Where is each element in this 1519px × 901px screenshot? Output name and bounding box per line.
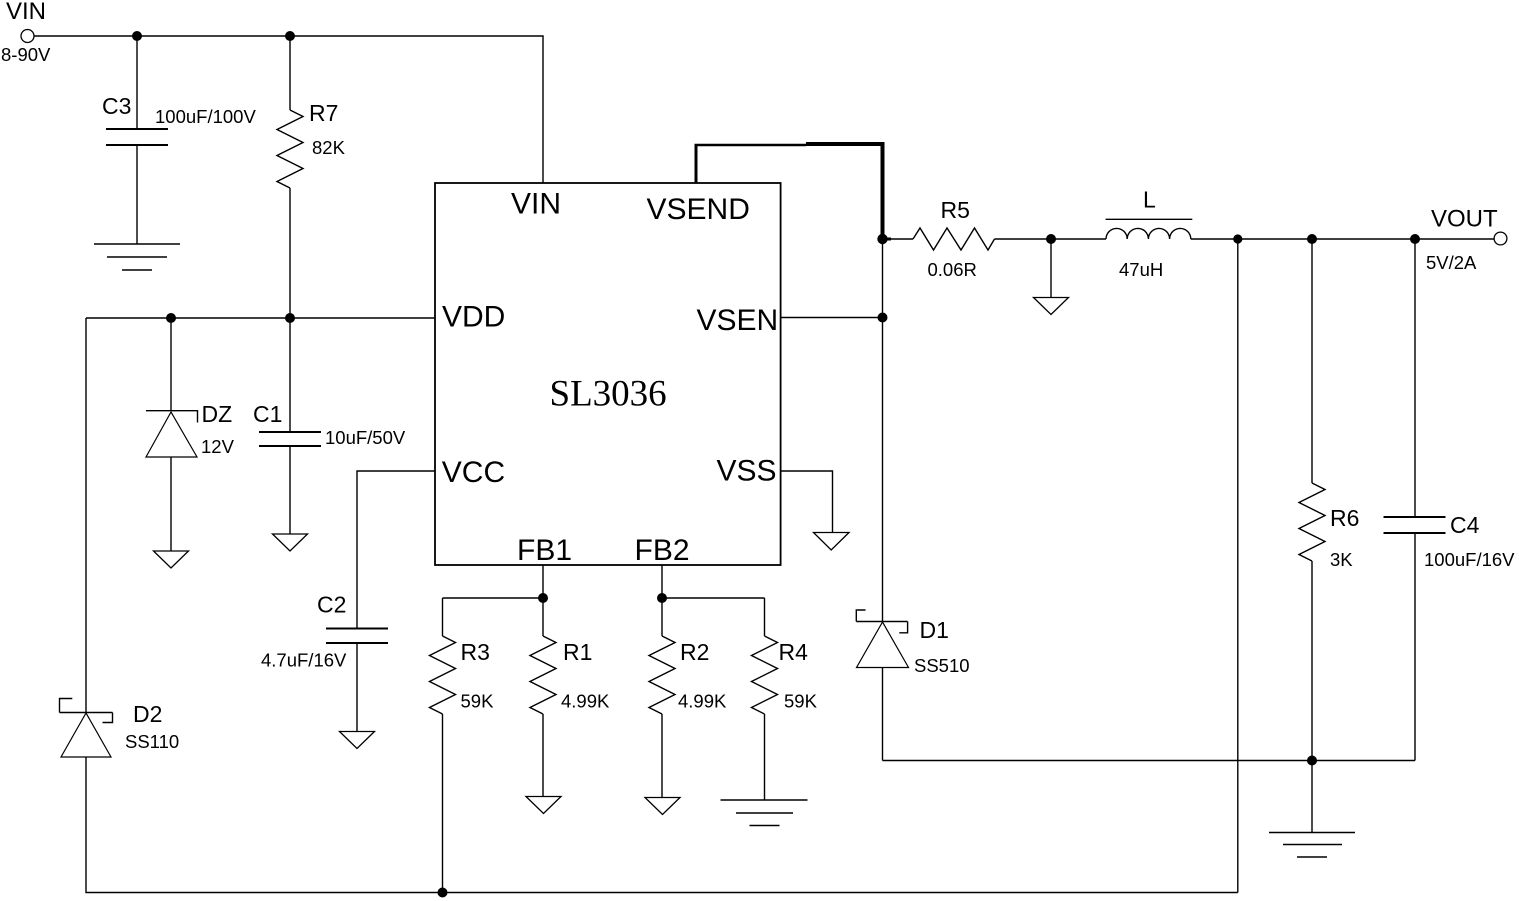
svg-text:59K: 59K [784,691,818,712]
resistor R4 59K [752,598,818,800]
wire D1 anode rail to C4 bottom [883,760,1416,762]
svg-text:4.99K: 4.99K [678,691,727,712]
svg-text:D1: D1 [920,617,949,643]
node J10 R3 bottom on bottom rail [438,888,448,898]
wire VCC pin to C2 [357,471,435,629]
svg-text:VIN: VIN [6,0,46,25]
wire VSEND thick route to switch node [695,142,885,239]
wire J5 down to ground arrow [1050,239,1052,298]
svg-text:3K: 3K [1330,549,1353,570]
inductor L 47uH [1106,187,1193,281]
node FB1 junction [538,593,548,603]
terminal VIN (port, 8-90V) [1,0,51,65]
resistor R5 0.06R [883,197,1052,280]
diode D2 SS110 (schottky) [60,699,180,758]
wire VSEN pin to switch node [781,317,883,319]
svg-text:C4: C4 [1450,512,1480,538]
resistor R7 82K [277,36,346,318]
svg-text:SS510: SS510 [914,655,970,676]
resistor R1 4.99K [530,598,610,797]
capacitor C4 100uF/16V [1384,239,1516,761]
resistor R2 4.99K [649,598,727,798]
capacitor C2 4.7uF/16V [261,592,388,732]
wire R6 bottom to earth ground [1311,761,1313,833]
ground (arrow) below R5 node [1034,298,1069,315]
ground (arrow) at VSS [814,533,850,551]
node J3 DZ tap on VDD rail [166,313,176,323]
wire switch node down to D1 [882,239,884,622]
svg-text:VSEN: VSEN [697,304,779,337]
svg-text:VSEND: VSEND [647,193,750,226]
wire top rail VIN to IC [34,36,543,183]
svg-text:R1: R1 [563,639,592,665]
diode DZ zener 12V [146,318,235,551]
node J9 R6 bottom junction [1307,756,1317,766]
diode D1 SS510 (schottky) [856,610,969,761]
svg-text:C3: C3 [102,93,131,119]
node J8 C4 top tap [1410,234,1420,244]
ground (earth) below R4 [721,800,808,826]
wire left branch down to D2 [85,318,87,713]
svg-text:R7: R7 [309,100,338,126]
wire VDD rail [86,317,435,319]
ground (arrow) below DZ [154,551,189,568]
svg-text:VOUT: VOUT [1431,206,1498,233]
ground (arrow) below C1 [273,534,308,551]
node VSEN junction [878,313,888,323]
wire D2 anode down to bottom rail [86,757,1238,893]
svg-text:SS110: SS110 [125,731,179,752]
wire FB2 junction to R4 [662,597,765,599]
svg-text:R5: R5 [941,197,970,223]
svg-text:VIN: VIN [511,188,561,221]
terminal VOUT (port, 5V/2A) [1426,206,1507,274]
svg-text:C1: C1 [253,401,282,427]
svg-text:59K: 59K [461,691,495,712]
svg-text:8-90V: 8-90V [1,44,51,65]
svg-text:4.99K: 4.99K [561,691,610,712]
node J6 output tap (bottom loop) [1233,234,1242,243]
wire output rail to VOUT [1191,238,1494,240]
node SW junction at R5 left [877,234,887,244]
svg-text:82K: 82K [312,137,346,158]
ground (earth) below C3 [94,244,180,270]
svg-text:SL3036: SL3036 [550,374,667,415]
wire FB1 junction to R3 [443,597,544,599]
svg-text:R2: R2 [680,639,709,665]
resistor R3 59K [430,598,495,893]
svg-text:100uF/16V: 100uF/16V [1424,549,1515,570]
svg-text:D2: D2 [133,701,162,727]
svg-text:FB1: FB1 [517,534,572,567]
svg-text:L: L [1143,187,1156,213]
svg-text:DZ: DZ [202,401,233,427]
svg-text:C2: C2 [317,592,346,618]
svg-text:VSS: VSS [717,455,777,488]
wire FB1 pin down [542,565,544,598]
svg-text:VCC: VCC [442,456,505,489]
svg-text:VDD: VDD [442,301,505,334]
wire VSS pin to ground [781,471,833,533]
svg-text:5V/2A: 5V/2A [1426,252,1477,273]
ground (arrow) below R1 [526,797,561,814]
capacitor C3 100uF/100V [102,36,256,244]
svg-text:4.7uF/16V: 4.7uF/16V [261,650,347,671]
ground (earth) below R6 [1269,833,1355,858]
svg-text:R3: R3 [461,639,490,665]
svg-text:100uF/100V: 100uF/100V [155,106,256,127]
capacitor C1 10uF/50V [253,318,406,534]
node J1 C3 tap on VIN rail [132,31,142,41]
node J2 R7 tap on VIN rail [285,31,295,41]
wire J5 to inductor [1051,238,1106,240]
svg-text:0.06R: 0.06R [928,259,977,280]
node J7 R6 top tap [1307,234,1317,244]
ground (arrow) below C2 [340,732,375,749]
op IC U1 SL3036 body [435,183,781,567]
wire J6 vertical down to bottom rail [1237,239,1239,893]
svg-text:FB2: FB2 [635,534,690,567]
resistor R6 3K [1299,239,1359,761]
svg-text:R4: R4 [779,639,809,665]
ground (arrow) below R2 [645,798,680,815]
svg-text:R6: R6 [1330,505,1359,531]
svg-text:10uF/50V: 10uF/50V [325,427,406,448]
wire FB2 pin down [661,565,663,598]
svg-text:12V: 12V [201,436,235,457]
node J5 after R5 [1046,234,1056,244]
svg-text:47uH: 47uH [1119,259,1163,280]
node J4 C1/R7 tap on VDD rail [285,313,295,323]
node FB2 junction [657,593,667,603]
